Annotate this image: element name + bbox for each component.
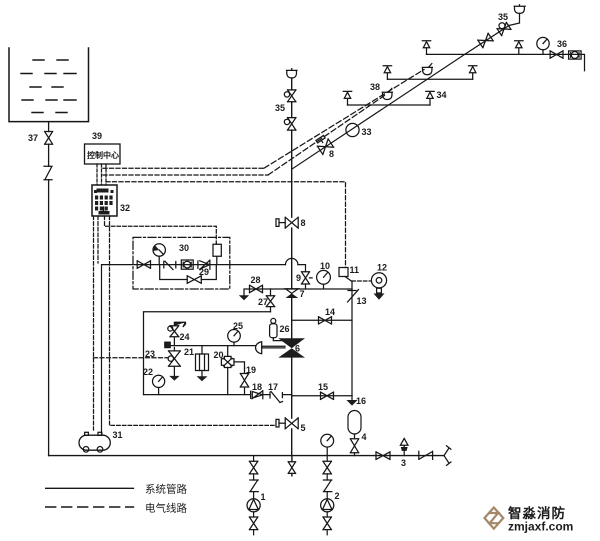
wires 39 to 32 (dashed) bbox=[97, 164, 106, 185]
pressure gauge (branch1) bbox=[537, 37, 549, 54]
flow probe 17 bbox=[268, 382, 283, 403]
wire to solenoid valve 23 (dashed) bbox=[94, 357, 169, 359]
pressure switch 11 bbox=[339, 265, 359, 282]
svg-text:14: 14 bbox=[325, 307, 335, 317]
pipe trim drain line bbox=[144, 394, 292, 396]
valve (tank 4) bbox=[350, 439, 358, 453]
pressure tank 4 bbox=[348, 411, 367, 456]
svg-text:20: 20 bbox=[214, 350, 224, 360]
fire department connection bbox=[444, 446, 451, 466]
valve (riser drain stub) bbox=[288, 462, 295, 474]
pipe elbow to top bell bbox=[509, 13, 520, 25]
riser main bbox=[291, 78, 293, 476]
pipe sprinkler feed main (diagonal) bbox=[292, 26, 509, 170]
wire bundle to sprinkler zone (dashed) bbox=[103, 167, 264, 169]
pipe test drain line 28 bbox=[244, 289, 292, 295]
air vessel 31 bbox=[79, 430, 123, 452]
sprinkler (branch3 left) bbox=[343, 91, 351, 105]
svg-text:zmjaxf.com: zmjaxf.com bbox=[508, 520, 573, 534]
alarm valve 7 bbox=[286, 289, 305, 299]
svg-text:38: 38 bbox=[370, 82, 380, 92]
drip funnel 21 bbox=[184, 346, 209, 382]
pipe branch line 3 (lower) bbox=[348, 104, 431, 106]
pressure gauge 22 bbox=[143, 367, 165, 395]
svg-text:18: 18 bbox=[252, 382, 262, 392]
safety valve 3 bbox=[400, 438, 408, 468]
svg-text:10: 10 bbox=[320, 261, 330, 271]
pressure gauge 10 bbox=[317, 261, 331, 284]
drain outlet (28) bbox=[239, 295, 249, 300]
svg-text:系统管路: 系统管路 bbox=[145, 483, 187, 496]
svg-text:9: 9 bbox=[296, 273, 301, 283]
butterfly valve 8 (diagonal) bbox=[314, 134, 333, 154]
flexible joint (bottom main) bbox=[419, 451, 433, 459]
diaphragm actuator horn bbox=[256, 342, 262, 354]
flow meter bbox=[181, 260, 193, 269]
check valve (box 30) bbox=[198, 260, 210, 269]
valve (pump 2 suction) bbox=[323, 517, 331, 530]
valve 29 bbox=[187, 267, 209, 283]
svg-text:31: 31 bbox=[113, 430, 123, 440]
svg-text:34: 34 bbox=[437, 90, 447, 100]
pressure switch 13 bbox=[348, 282, 367, 396]
svg-text:35: 35 bbox=[498, 12, 508, 22]
svg-text:15: 15 bbox=[318, 382, 328, 392]
wire panel drop to valve 5 (dashed) bbox=[110, 216, 277, 425]
svg-text:29: 29 bbox=[199, 267, 209, 277]
wire tank outlet pipe bbox=[48, 122, 50, 456]
drain outlet 16 bbox=[346, 396, 366, 406]
wire panel drop left (dashed) bbox=[93, 216, 95, 430]
svg-text:11: 11 bbox=[350, 265, 360, 275]
flexible joint (pump 2) bbox=[323, 480, 331, 492]
pressure gauge 25 bbox=[228, 321, 243, 346]
legend line: electric wiring bbox=[46, 502, 188, 515]
pump 1 branch bbox=[253, 456, 255, 535]
logo text bbox=[508, 505, 573, 534]
pipe pilot line bbox=[170, 345, 255, 347]
pipe branch to pressure switch leg 14 bbox=[292, 319, 352, 321]
wire to alarm bell 12 (dashed) bbox=[352, 280, 371, 282]
fire pump 2 bbox=[321, 491, 340, 512]
valve (pump 1 suction) bbox=[249, 517, 257, 530]
sprinkler (branch1 mid) bbox=[515, 41, 523, 55]
svg-text:21: 21 bbox=[184, 347, 194, 357]
flexible joint (pump 1) bbox=[250, 480, 258, 492]
sprinkler (branch1 left) bbox=[422, 41, 430, 55]
pipe branch line 1 (top) bbox=[427, 54, 585, 70]
flexible joint on tank line bbox=[44, 166, 52, 179]
solenoid valve on bypass bbox=[213, 244, 221, 264]
svg-text:27: 27 bbox=[258, 297, 268, 307]
junction device (square) bbox=[145, 342, 170, 359]
pipe horn to deluge valve bbox=[262, 346, 285, 348]
wire detector loop 2 (dashed diagonal) bbox=[268, 96, 385, 176]
valve 37 bbox=[28, 132, 53, 145]
control centre box 39 bbox=[85, 131, 121, 164]
svg-text:36: 36 bbox=[557, 39, 567, 49]
svg-text:4: 4 bbox=[362, 432, 367, 442]
svg-text:3: 3 bbox=[401, 458, 406, 468]
svg-text:8: 8 bbox=[329, 149, 334, 159]
svg-text:35: 35 bbox=[275, 103, 285, 113]
svg-text:33: 33 bbox=[362, 127, 372, 137]
svg-text:39: 39 bbox=[92, 131, 102, 141]
valve 14 bbox=[319, 307, 336, 324]
signal valve 24 bbox=[168, 326, 190, 346]
svg-text:7: 7 bbox=[300, 289, 305, 299]
valve 28 bbox=[250, 275, 263, 293]
logo mark bbox=[485, 508, 504, 529]
svg-text:控制中心: 控制中心 bbox=[87, 150, 119, 160]
wire pipe bridge over riser bbox=[286, 258, 298, 264]
signal valve 35 (riser) bbox=[275, 90, 296, 113]
sprinkler (branch2 right) bbox=[469, 66, 477, 80]
valve 27 bbox=[258, 289, 275, 312]
svg-text:28: 28 bbox=[251, 275, 261, 285]
fire alarm panel 32 bbox=[92, 185, 130, 216]
valve 36 bbox=[550, 39, 567, 58]
pump 2 branch bbox=[326, 456, 328, 535]
pipe supply header bbox=[102, 265, 306, 435]
test connection (branch1 end) bbox=[569, 51, 582, 59]
svg-text:1: 1 bbox=[261, 492, 266, 502]
pipe riser to branch line 9 bbox=[292, 284, 352, 289]
pipe bottom suction/feed main bbox=[49, 455, 444, 457]
electric alarm bell 12 bbox=[371, 263, 387, 300]
valve 9 bbox=[296, 272, 312, 284]
sprinkler 34 bbox=[426, 90, 447, 105]
svg-text:8: 8 bbox=[301, 218, 306, 228]
alarm bell (riser top) bbox=[287, 69, 298, 78]
butterfly valve 5 bbox=[276, 418, 306, 433]
signal valve 23 bbox=[168, 348, 180, 381]
wire panel drop to pipe (dashed) bbox=[97, 216, 99, 263]
svg-text:37: 37 bbox=[28, 133, 38, 143]
svg-text:24: 24 bbox=[180, 332, 190, 342]
alarm gong 33 bbox=[346, 123, 372, 137]
svg-text:25: 25 bbox=[233, 321, 243, 331]
valve (bottom main) bbox=[376, 452, 390, 460]
fire pump 1 bbox=[247, 492, 266, 512]
fire detector 38 bbox=[370, 82, 392, 100]
pipe test drain line 15 bbox=[292, 395, 352, 397]
pipe branch line 2 (middle) bbox=[387, 78, 472, 80]
signal valve 35 (diagonal top) bbox=[478, 33, 493, 48]
valve (box 30 inlet) bbox=[137, 261, 150, 269]
svg-text:2: 2 bbox=[335, 491, 340, 501]
svg-text:13: 13 bbox=[357, 296, 367, 306]
svg-text:12: 12 bbox=[377, 263, 387, 273]
alarm bell (top) bbox=[514, 5, 525, 14]
svg-text:19: 19 bbox=[246, 365, 256, 375]
sprinkler (branch2 left) bbox=[383, 66, 391, 80]
wire panel drop to bypass assembly (dashed) bbox=[105, 216, 217, 244]
svg-text:电气线路: 电气线路 bbox=[145, 502, 187, 515]
bypass metering box 30 bbox=[133, 237, 230, 289]
pipe bypass loop bbox=[160, 265, 217, 280]
svg-text:5: 5 bbox=[301, 423, 306, 433]
wire detector loop 1 (dashed diagonal) bbox=[264, 70, 424, 169]
valve (pump 1 discharge) bbox=[249, 461, 257, 474]
check valve 18 bbox=[251, 382, 263, 399]
butterfly valve 8 (riser) bbox=[276, 217, 306, 228]
legend line: system piping bbox=[46, 483, 188, 496]
pipe trim header line bbox=[144, 312, 271, 395]
fire detector (branch2) bbox=[422, 64, 432, 75]
svg-text:22: 22 bbox=[143, 367, 153, 377]
svg-text:17: 17 bbox=[268, 382, 278, 392]
pressure gauge (pump header) bbox=[321, 434, 334, 455]
svg-text:26: 26 bbox=[280, 324, 290, 334]
svg-text:6: 6 bbox=[295, 344, 300, 354]
deluge valve 6 bbox=[278, 338, 305, 357]
svg-text:23: 23 bbox=[145, 349, 155, 359]
svg-text:16: 16 bbox=[356, 396, 366, 406]
signal valve (riser lower) bbox=[284, 118, 296, 131]
test elbow (above 24) bbox=[174, 322, 185, 327]
valve 19 bbox=[234, 362, 256, 395]
water flow indicator bbox=[153, 244, 165, 265]
valve (pump 2 discharge) bbox=[323, 461, 331, 474]
union and probe bbox=[164, 261, 176, 269]
water tank bbox=[9, 48, 89, 122]
pilot operated relief 26 bbox=[270, 318, 290, 340]
manifold cross 20 bbox=[214, 346, 235, 395]
valve 15 bbox=[318, 382, 334, 399]
svg-text:30: 30 bbox=[179, 243, 189, 253]
svg-text:32: 32 bbox=[120, 203, 130, 213]
